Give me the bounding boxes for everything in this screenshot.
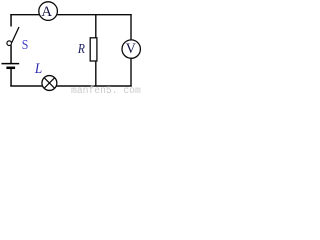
wire resistor branch vertical lower — [95, 61, 97, 86]
lamp circle — [42, 76, 57, 91]
wire top horizontal left segment — [10, 14, 39, 16]
wire voltmeter branch vertical lower — [130, 58, 132, 86]
switch S blade — [12, 27, 19, 43]
wire top horizontal right segment — [57, 14, 132, 16]
wire left vertical upper (corner to switch) — [10, 14, 12, 27]
battery short plate — [6, 67, 15, 70]
battery long plate — [2, 63, 20, 65]
wire bottom horizontal left segment — [10, 85, 42, 87]
voltmeter U2 circle — [122, 40, 140, 58]
svg-text:manfen5. com: manfen5. com — [71, 85, 141, 94]
switch S pivot circle — [7, 41, 12, 46]
lamp cross line 2 — [44, 78, 55, 89]
svg-text:A: A — [41, 4, 52, 20]
wire left vertical lower (battery to bottom wire) — [10, 69, 12, 86]
resistor R body — [90, 38, 97, 61]
lamp cross line 1 — [44, 78, 55, 89]
svg-text:L: L — [34, 61, 42, 77]
wire left vertical middle (switch to battery) — [10, 45, 12, 63]
wire voltmeter branch vertical upper — [130, 14, 132, 40]
svg-text:S: S — [22, 38, 29, 53]
wire bottom horizontal right segment — [56, 85, 131, 87]
wire resistor branch vertical upper — [95, 15, 97, 38]
ammeter U1 circle — [39, 2, 58, 21]
svg-text:V: V — [126, 41, 136, 57]
svg-text:R: R — [77, 41, 85, 56]
